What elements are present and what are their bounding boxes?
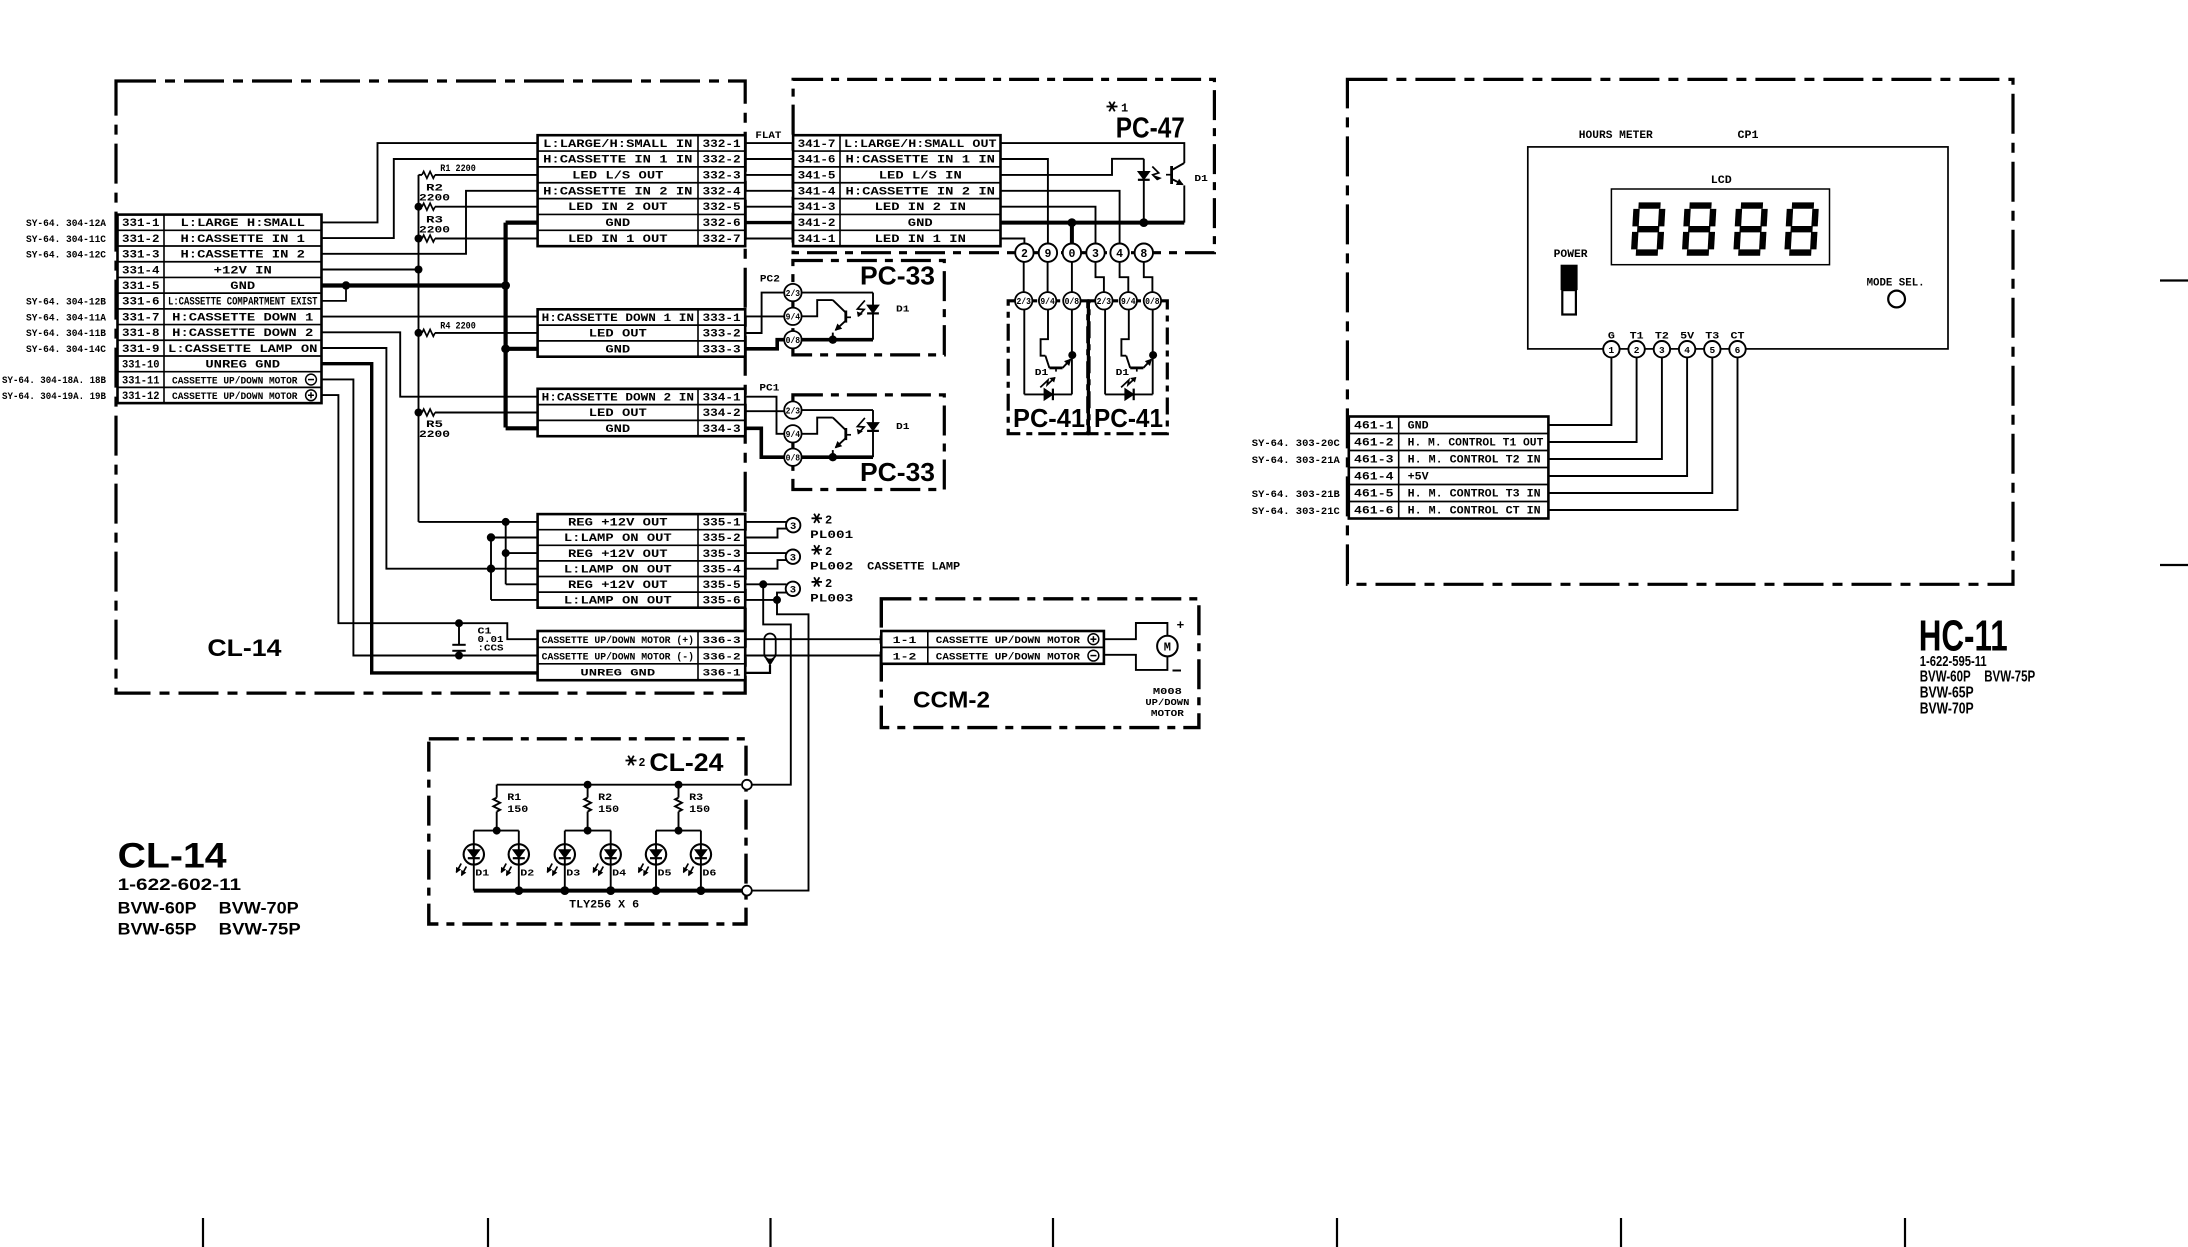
capacitor C1 0.01 :CCS xyxy=(452,619,504,659)
wire 334-3 to PC1 pin 0/8 (GND) xyxy=(745,428,784,457)
svg-text:PC-47: PC-47 xyxy=(1116,113,1185,145)
board CL-24 dashed outline xyxy=(429,739,746,924)
node GND junction at 333-3 xyxy=(501,344,510,353)
svg-text:2/3: 2/3 xyxy=(786,406,801,416)
svg-text:D3: D3 xyxy=(566,868,580,879)
svg-text:PC-41: PC-41 xyxy=(1094,403,1163,433)
LED D3 (TLY256) xyxy=(547,831,575,891)
wire flat 332-5 to 341-3 xyxy=(745,206,793,208)
svg-text:461-4: 461-4 xyxy=(1354,472,1394,484)
resistor R5 2200 (on 334-2 line) xyxy=(415,409,538,442)
svg-text:2/3: 2/3 xyxy=(786,289,801,299)
svg-text:9/4: 9/4 xyxy=(1121,297,1136,307)
board PC-47 dashed outline xyxy=(793,79,1214,252)
svg-text:332-5: 332-5 xyxy=(703,202,741,214)
wire LED pair bus 1 xyxy=(474,830,519,832)
svg-text:SY-64. 303-20C: SY-64. 303-20C xyxy=(1252,438,1341,450)
svg-text:331-5: 331-5 xyxy=(122,281,160,293)
svg-text:3: 3 xyxy=(1659,345,1665,356)
svg-text:L:CASSETTE LAMP ON: L:CASSETTE LAMP ON xyxy=(168,344,317,356)
wire GND to 334-3 xyxy=(506,426,538,430)
svg-text:FLAT: FLAT xyxy=(755,130,781,142)
svg-text:CASSETTE UP/DOWN MOTOR: CASSETTE UP/DOWN MOTOR xyxy=(936,651,1081,663)
svg-text:0: 0 xyxy=(1068,248,1075,261)
label *2 (PL001) xyxy=(812,513,833,527)
mode select button xyxy=(1888,291,1905,308)
node emitter junction (PC-41) xyxy=(1068,351,1076,359)
wire pin 0 to PC-41 pin 0/8 xyxy=(1071,262,1073,292)
svg-text:MOTOR: MOTOR xyxy=(1151,709,1185,719)
wire +12V bus to 335-1/3/5 xyxy=(419,518,538,584)
svg-text:9/4: 9/4 xyxy=(786,313,801,323)
svg-text:332-2: 332-2 xyxy=(703,155,741,167)
LCD display outline xyxy=(1611,189,1829,265)
svg-text:D1: D1 xyxy=(1116,367,1130,378)
svg-text:PC2: PC2 xyxy=(760,274,780,286)
svg-text:PC1: PC1 xyxy=(759,382,779,394)
svg-text:+5V: +5V xyxy=(1408,472,1430,484)
wire +12V vertical bus xyxy=(418,175,420,522)
svg-text:CP1: CP1 xyxy=(1738,130,1759,142)
wire 335-3 to PL002 xyxy=(745,552,786,554)
wire +12V IN from 331-4 to bus xyxy=(322,269,419,271)
wire 331-6 tap to GND bus xyxy=(322,286,347,301)
svg-text:341-5: 341-5 xyxy=(798,171,836,183)
svg-text:BVW-75P: BVW-75P xyxy=(219,920,301,939)
svg-text:H. M. CONTROL CT IN: H. M. CONTROL CT IN xyxy=(1408,506,1541,518)
svg-text:2: 2 xyxy=(825,545,832,559)
svg-text:REG +12V OUT: REG +12V OUT xyxy=(568,549,668,561)
optocoupler D1 (PC-41 right) xyxy=(1105,309,1157,400)
resistor R3 150 (CL-24) xyxy=(675,785,710,831)
wire GND drop to pin 0 xyxy=(1070,223,1074,244)
connector junction (cathode bus, open circle) xyxy=(742,886,752,896)
svg-text:SY-64. 303-21C: SY-64. 303-21C xyxy=(1252,506,1341,518)
svg-text:332-4: 332-4 xyxy=(703,186,742,198)
svg-text:335-6: 335-6 xyxy=(703,596,741,608)
wire flat 332-1 to 341-7 xyxy=(745,142,793,144)
wire flat 332-4 to 341-4 xyxy=(745,190,793,192)
svg-text:H:CASSETTE IN 1 IN: H:CASSETTE IN 1 IN xyxy=(846,155,995,167)
svg-text:GND: GND xyxy=(908,218,934,230)
wire flat 332-7 to 341-1 xyxy=(745,238,793,240)
svg-text:D1: D1 xyxy=(1035,367,1049,378)
wire pin 3 to PC-41 right pin 2/3 xyxy=(1096,262,1104,292)
svg-text:1-1: 1-1 xyxy=(893,636,917,647)
svg-text:H:CASSETTE DOWN 2: H:CASSETTE DOWN 2 xyxy=(172,328,313,340)
svg-text:LED OUT: LED OUT xyxy=(589,408,648,420)
svg-text:UP/DOWN: UP/DOWN xyxy=(1145,698,1189,708)
resistor R1 2200 (on 332-3 line) xyxy=(419,164,538,178)
seven-segment digits 8888 xyxy=(1634,206,1816,253)
wire 333-3 to PC2 pin 0/8 (GND) xyxy=(745,340,784,349)
svg-text:341-7: 341-7 xyxy=(798,139,836,151)
svg-text:3: 3 xyxy=(790,521,796,533)
connector table 335 xyxy=(538,514,746,608)
svg-text:H:CASSETTE IN 2: H:CASSETTE IN 2 xyxy=(181,250,306,262)
svg-text:9: 9 xyxy=(1044,248,1051,261)
svg-text:341-1: 341-1 xyxy=(798,234,836,246)
svg-text:HOURS METER: HOURS METER xyxy=(1579,130,1653,142)
node GND bus junction at 331-6 tap xyxy=(342,281,350,289)
svg-text:334-3: 334-3 xyxy=(703,424,741,436)
svg-text:+12V IN: +12V IN xyxy=(214,265,272,277)
board PC-33 (lower) dashed outline xyxy=(793,395,944,490)
wire 334-1 to PC1 pin 9/4 xyxy=(745,397,784,434)
LED D5 (TLY256) xyxy=(639,831,667,891)
wire pin3 to 461-3 xyxy=(1548,357,1662,459)
shared edge between PC-41 boards xyxy=(1087,301,1090,434)
wire pin5 to 461-5 xyxy=(1548,357,1712,493)
svg-text:334-2: 334-2 xyxy=(703,408,741,420)
svg-text:CASSETTE UP/DOWN MOTOR (-): CASSETTE UP/DOWN MOTOR (-) xyxy=(542,651,694,663)
LED D4 (TLY256) xyxy=(593,831,621,891)
svg-text:332-7: 332-7 xyxy=(703,234,741,246)
svg-text:335-5: 335-5 xyxy=(703,580,741,592)
svg-text:BVW-70P: BVW-70P xyxy=(1920,701,1974,718)
svg-text:M: M xyxy=(1164,641,1171,655)
wire +12V feed to CL-24 anode bus xyxy=(752,584,791,784)
svg-text:R4 2200: R4 2200 xyxy=(440,322,476,333)
svg-text:H:CASSETTE DOWN 2 IN: H:CASSETTE DOWN 2 IN xyxy=(542,392,694,404)
svg-text:331-9: 331-9 xyxy=(122,344,160,356)
svg-text:H:CASSETTE IN 2 IN: H:CASSETTE IN 2 IN xyxy=(543,186,692,198)
node emitter junction (PC-33) xyxy=(829,453,837,461)
wire 341-6 to pin 9 xyxy=(1001,159,1048,244)
svg-text:LCD: LCD xyxy=(1711,175,1732,187)
svg-text:3: 3 xyxy=(1092,248,1099,261)
labels G T1 T2 5V T3 CT xyxy=(1608,331,1745,343)
connector PL001 (pin 3) xyxy=(786,518,800,533)
connector pins 2/3 9/4 0/8 (PC2) xyxy=(784,284,801,349)
svg-text:D1: D1 xyxy=(896,421,910,432)
svg-text:331-2: 331-2 xyxy=(122,234,160,246)
connector pins 2/3 9/4 0/8 (PC-41 right) xyxy=(1095,292,1161,309)
svg-text:MODE SEL.: MODE SEL. xyxy=(1867,278,1925,290)
wire lamp bus vertical (feeds 335-2/4/6) xyxy=(487,533,538,600)
svg-text:1: 1 xyxy=(1609,345,1615,356)
svg-text:SY-64. 304-11C: SY-64. 304-11C xyxy=(26,234,107,246)
svg-text:LED L/S OUT: LED L/S OUT xyxy=(572,171,664,183)
svg-text:R3: R3 xyxy=(689,792,703,804)
label *2 (PL003) xyxy=(812,577,833,591)
node emitter junction (PC-33) xyxy=(829,336,837,344)
resistor R4 2200 (on 333-2 line) xyxy=(415,322,538,337)
svg-text:GND: GND xyxy=(605,345,631,357)
wire pin4 to 461-4 xyxy=(1548,357,1687,476)
wire CL-24 cathode bus xyxy=(474,889,742,893)
wire pin2 to 461-2 xyxy=(1548,357,1636,442)
wire 331-3 to 332-4 (H:CASSETTE IN 2) xyxy=(322,191,538,254)
svg-text:GND: GND xyxy=(605,424,631,436)
svg-text:461-1: 461-1 xyxy=(1354,421,1394,433)
wire lamp return from CL-24 cathode bus xyxy=(752,600,809,891)
svg-text:2/3: 2/3 xyxy=(1097,297,1112,307)
node anode bus at R2 xyxy=(584,781,592,789)
svg-text:1-622-602-11: 1-622-602-11 xyxy=(118,876,242,894)
LED D6 (TLY256) xyxy=(684,831,712,891)
connector pins 1-6 (CP1) xyxy=(1603,341,1746,357)
svg-text:3: 3 xyxy=(790,553,796,565)
svg-text:SY-64. 304-18A. 18B: SY-64. 304-18A. 18B xyxy=(2,375,107,387)
svg-text:335-3: 335-3 xyxy=(703,549,741,561)
svg-text:LED IN 1 IN: LED IN 1 IN xyxy=(875,234,966,246)
svg-text:POWER: POWER xyxy=(1554,249,1588,261)
svg-text:GND: GND xyxy=(1408,421,1430,433)
wire flat 332-6 to 341-2 (GND) xyxy=(745,221,793,224)
svg-text:2: 2 xyxy=(1021,248,1028,261)
svg-text:1-2: 1-2 xyxy=(893,652,917,663)
wire 341-7 to phototransistor collector xyxy=(1001,143,1185,163)
svg-text:R2: R2 xyxy=(598,792,612,804)
wire pin6 to 461-6 xyxy=(1548,357,1737,510)
svg-text:341-2: 341-2 xyxy=(798,218,836,230)
svg-text:M008: M008 xyxy=(1153,687,1182,697)
node +12V junction (331-4) xyxy=(415,266,423,274)
svg-text:SY-64. 304-12C: SY-64. 304-12C xyxy=(26,250,107,262)
svg-text:SY-64. 303-21A: SY-64. 303-21A xyxy=(1252,455,1341,467)
node GND at pin 0 xyxy=(1068,218,1077,227)
svg-text:PC-33: PC-33 xyxy=(860,459,935,487)
svg-text:PC-41: PC-41 xyxy=(1013,403,1085,433)
wire LED pair bus 2 xyxy=(565,830,611,832)
svg-text:LED OUT: LED OUT xyxy=(589,329,648,341)
svg-text:R1 2200: R1 2200 xyxy=(440,164,476,175)
wire GND bus from 331-5 xyxy=(322,283,506,287)
svg-text:331-3: 331-3 xyxy=(122,250,160,262)
svg-text:REG +12V OUT: REG +12V OUT xyxy=(568,518,668,530)
svg-text:331-7: 331-7 xyxy=(122,312,160,324)
svg-text:CASSETTE UP/DOWN MOTOR (+): CASSETTE UP/DOWN MOTOR (+) xyxy=(542,635,694,647)
page tick marks (right edge) xyxy=(2160,281,2188,566)
page fold tick marks (bottom) xyxy=(203,1218,1905,1247)
optocoupler D1 (PC-33 lower) xyxy=(802,410,879,461)
svg-text:2200: 2200 xyxy=(419,194,450,205)
wire 1-2 to motor - xyxy=(1104,655,1168,670)
svg-text:SY-64. 304-11A: SY-64. 304-11A xyxy=(26,312,107,324)
wire flat 332-2 to 341-6 xyxy=(745,158,793,160)
wire GND 341-2 to emitter xyxy=(1001,221,1185,225)
board PC-41 (right) dashed outline xyxy=(1089,301,1167,434)
wire 335-2 to PL001 xyxy=(745,529,787,538)
wire 335-4 to PL002 xyxy=(745,560,787,569)
svg-text:6: 6 xyxy=(1735,345,1741,356)
svg-text:CASSETTE UP/DOWN MOTOR: CASSETTE UP/DOWN MOTOR xyxy=(172,375,298,387)
resistor R3 2200 (on 332-7 line) xyxy=(415,216,538,243)
svg-text:L:LARGE H:SMALL: L:LARGE H:SMALL xyxy=(181,218,306,230)
svg-text:CL-24: CL-24 xyxy=(649,749,723,777)
svg-text:H:CASSETTE IN 1: H:CASSETTE IN 1 xyxy=(181,234,306,246)
wire 335-5 to PL003 xyxy=(745,583,786,585)
node GND at LED cathode xyxy=(1139,218,1148,227)
wire 331-11 motor(-) to 336-2 xyxy=(322,379,538,655)
wire pin1 to 461-1 xyxy=(1548,357,1611,425)
svg-text:335-2: 335-2 xyxy=(703,533,741,545)
svg-text:UNREG GND: UNREG GND xyxy=(580,669,655,680)
svg-text:CASSETTE UP/DOWN MOTOR: CASSETTE UP/DOWN MOTOR xyxy=(172,391,298,403)
svg-text:D1: D1 xyxy=(475,868,489,879)
svg-text:L:LAMP ON OUT: L:LAMP ON OUT xyxy=(564,564,673,576)
svg-text:461-2: 461-2 xyxy=(1354,438,1394,450)
svg-text:H:CASSETTE IN 1 IN: H:CASSETTE IN 1 IN xyxy=(543,155,692,167)
svg-text:BVW-60P: BVW-60P xyxy=(1920,669,1971,686)
svg-text:D2: D2 xyxy=(520,868,534,879)
connector table 333 xyxy=(538,309,746,356)
wire 341-3 to pin 3 xyxy=(1001,207,1096,244)
board CL-14 dashed outline xyxy=(116,81,745,693)
svg-text:D1: D1 xyxy=(1194,173,1208,184)
connector table 341 xyxy=(793,135,1000,246)
svg-text:150: 150 xyxy=(507,804,528,816)
resistor R2 2200 (on 332-5 line) xyxy=(415,184,538,211)
svg-text:150: 150 xyxy=(689,804,710,816)
label *2 (PL002) xyxy=(812,545,833,559)
svg-text:335-4: 335-4 xyxy=(703,564,742,576)
node GND bus junction at vertical xyxy=(501,281,510,290)
connector table 1 (CCM-2) xyxy=(881,631,1104,664)
svg-text:+: + xyxy=(1177,618,1185,633)
svg-text:CL-14: CL-14 xyxy=(207,635,282,662)
wire 336-1 ground to shield xyxy=(745,665,770,673)
svg-text:2: 2 xyxy=(639,757,646,770)
svg-text:341-4: 341-4 xyxy=(798,186,836,198)
svg-text:LED IN 2 IN: LED IN 2 IN xyxy=(875,202,966,214)
connector pins 2/3 9/4 0/8 (PC1) xyxy=(784,401,801,466)
wire pin 9 to PC-41 pin 9/4 xyxy=(1047,262,1049,292)
wire 331-7 to 333-1 (H:CASSETTE DOWN 1) xyxy=(322,316,538,318)
svg-text:334-1: 334-1 xyxy=(703,392,742,404)
svg-text:2200: 2200 xyxy=(419,226,450,237)
svg-text:L:CASSETTE COMPARTMENT EXIST: L:CASSETTE COMPARTMENT EXIST xyxy=(168,297,318,309)
connector PL002 (pin 3) xyxy=(786,550,800,565)
svg-text:0/8: 0/8 xyxy=(1145,297,1160,307)
svg-text:H. M. CONTROL T3 IN: H. M. CONTROL T3 IN xyxy=(1408,489,1541,501)
resistor R2 150 (CL-24) xyxy=(584,785,619,831)
svg-text:D4: D4 xyxy=(612,868,626,879)
wire 333-1 to PC2 pin 9/4 xyxy=(745,315,784,317)
board CCM-2 dashed outline xyxy=(881,599,1199,728)
svg-text:D6: D6 xyxy=(702,868,716,879)
svg-text:2: 2 xyxy=(825,513,832,527)
svg-text:331-6: 331-6 xyxy=(122,297,160,309)
label *1 (note mark) xyxy=(1107,102,1129,116)
svg-text:H:CASSETTE IN 2 IN: H:CASSETTE IN 2 IN xyxy=(846,186,995,198)
svg-text:LED IN 2 OUT: LED IN 2 OUT xyxy=(568,202,668,214)
connector PL003 (pin 3) xyxy=(786,582,800,597)
wire 341-4 to pin 4 xyxy=(1001,191,1120,244)
svg-text:BVW-75P: BVW-75P xyxy=(1984,669,2035,686)
wire 331-1 to 332-1 (L:LARGE H:SMALL) xyxy=(322,143,538,222)
svg-text:0/8: 0/8 xyxy=(786,336,801,346)
svg-text:UNREG GND: UNREG GND xyxy=(205,360,280,372)
optocoupler D1 (PC-47) phototransistor xyxy=(1166,163,1184,223)
svg-text:333-2: 333-2 xyxy=(703,329,741,341)
svg-text:4: 4 xyxy=(1116,248,1123,261)
connector pins 2 9 0 3 4 8 (PC-47) xyxy=(1015,244,1153,262)
svg-text:L:LARGE/H:SMALL OUT: L:LARGE/H:SMALL OUT xyxy=(844,139,997,151)
wire CL-24 anode bus xyxy=(497,784,742,786)
connector table 332 xyxy=(538,135,746,246)
svg-text:461-6: 461-6 xyxy=(1354,506,1394,518)
svg-text:PC-33: PC-33 xyxy=(860,263,935,291)
wire GND vertical to 332-6 xyxy=(506,221,538,225)
wire LED pair bus 3 xyxy=(656,830,701,832)
svg-text:335-1: 335-1 xyxy=(703,518,742,530)
board PC-33 (upper) dashed outline xyxy=(793,261,944,355)
svg-text:PL001: PL001 xyxy=(810,530,854,542)
svg-text:331-11: 331-11 xyxy=(122,375,160,387)
svg-text:3: 3 xyxy=(790,585,796,597)
wire 341-1 to pin 2 xyxy=(1001,239,1025,244)
svg-text:TLY256 X 6: TLY256 X 6 xyxy=(569,900,639,912)
connector pins 2/3 9/4 0/8 (PC-41 left) xyxy=(1015,292,1081,309)
svg-text:L:LAMP ON OUT: L:LAMP ON OUT xyxy=(564,533,673,545)
wire 341-5 to LED anode xyxy=(1001,159,1144,175)
svg-text:2: 2 xyxy=(825,577,832,591)
connector table 331 xyxy=(118,215,322,404)
svg-text:341-3: 341-3 xyxy=(798,202,836,214)
svg-text:461-5: 461-5 xyxy=(1354,489,1394,501)
wire 331-8 to 334-1 (H:CASSETTE DOWN 2) xyxy=(322,332,538,396)
optocoupler D1 (PC-33 upper) xyxy=(802,293,879,344)
svg-text:CCM-2: CCM-2 xyxy=(913,687,990,713)
optocoupler D1 (PC-41 left) xyxy=(1024,309,1076,400)
svg-text:332-6: 332-6 xyxy=(703,218,741,230)
wire 333-2 to PC2 pin 2/3 xyxy=(745,293,784,333)
wire 335-1 to PL001 xyxy=(745,521,786,523)
svg-text:9/4: 9/4 xyxy=(1040,297,1055,307)
svg-text:332-1: 332-1 xyxy=(703,139,742,151)
wire 331-10 UNREG GND to 336-1 xyxy=(322,364,538,673)
wire pin 4 to PC-41 right pin 9/4 xyxy=(1120,262,1129,292)
svg-text:H. M. CONTROL T1 OUT: H. M. CONTROL T1 OUT xyxy=(1408,438,1544,450)
board PC-41 (left) dashed outline xyxy=(1008,301,1088,434)
connector table 461 xyxy=(1349,417,1549,519)
svg-text:PL003: PL003 xyxy=(810,594,854,606)
svg-text:REG +12V OUT: REG +12V OUT xyxy=(568,580,668,592)
power switch xyxy=(1561,265,1578,315)
svg-text:341-6: 341-6 xyxy=(798,155,836,167)
svg-text:333-3: 333-3 xyxy=(703,345,741,357)
cable shield around motor wires xyxy=(764,634,775,666)
svg-text:BVW-70P: BVW-70P xyxy=(219,899,299,918)
svg-text:336-1: 336-1 xyxy=(703,669,741,680)
svg-text:1-622-595-11: 1-622-595-11 xyxy=(1920,653,1987,670)
wire 334-2 to PC1 pin 2/3 xyxy=(745,410,784,412)
svg-text:9/4: 9/4 xyxy=(786,430,801,440)
wire 336-2 to CCM-2 1-2 xyxy=(745,655,881,657)
wire 331-2 to 332-2 (H:CASSETTE IN 1) xyxy=(322,159,538,238)
svg-text:L:LAMP ON OUT: L:LAMP ON OUT xyxy=(564,596,673,608)
svg-text:GND: GND xyxy=(605,218,631,230)
svg-text:LED IN 1 OUT: LED IN 1 OUT xyxy=(568,234,668,246)
connector table 334 xyxy=(538,389,746,436)
svg-text:336-3: 336-3 xyxy=(703,636,741,647)
label M008 UP/DOWN MOTOR xyxy=(1145,687,1189,719)
node emitter junction (PC-41) xyxy=(1149,351,1157,359)
label *2 (note mark, CL-24) xyxy=(626,756,646,770)
svg-text:8: 8 xyxy=(1140,248,1147,261)
svg-text:331-10: 331-10 xyxy=(122,360,160,372)
svg-text:150: 150 xyxy=(598,804,619,816)
svg-text:H:CASSETTE DOWN 1 IN: H:CASSETTE DOWN 1 IN xyxy=(542,313,694,325)
svg-text:331-4: 331-4 xyxy=(122,265,160,277)
svg-text:D5: D5 xyxy=(658,868,672,879)
svg-text:SY-64. 304-14C: SY-64. 304-14C xyxy=(26,344,107,356)
svg-text:SY-64. 304-11B: SY-64. 304-11B xyxy=(26,328,107,340)
svg-text:2/3: 2/3 xyxy=(1016,297,1031,307)
svg-text:0/8: 0/8 xyxy=(1065,297,1080,307)
